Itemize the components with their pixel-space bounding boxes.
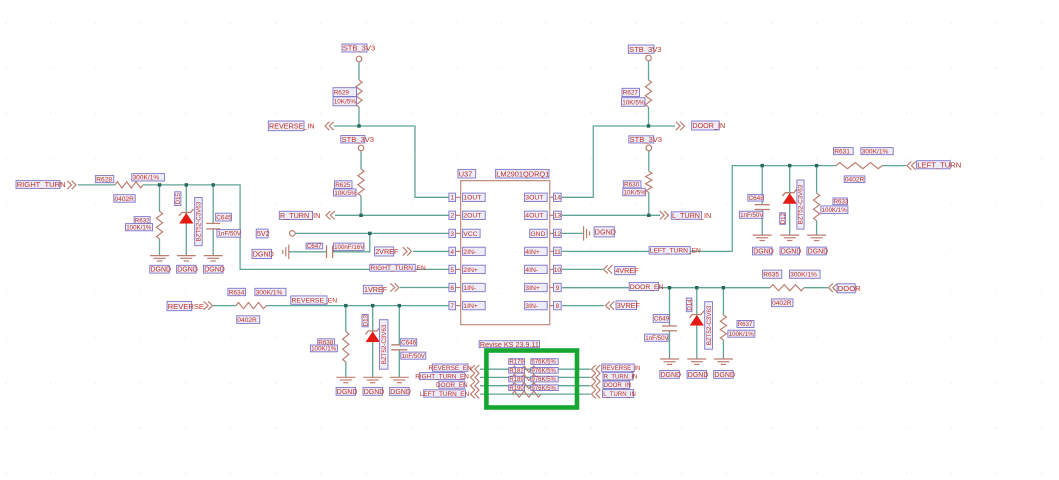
svg-text:C647: C647	[307, 243, 322, 250]
wire R633 to ground	[816, 221, 818, 235]
resistor R638	[343, 332, 349, 363]
svg-text:4VREF: 4VREF	[615, 266, 639, 275]
pin number 1	[449, 193, 456, 202]
svg-text:D14: D14	[686, 299, 693, 311]
value 10K/5%	[333, 97, 357, 106]
resistor R629	[356, 80, 362, 107]
net DGND	[390, 387, 411, 396]
svg-text:10K/5%: 10K/5%	[334, 99, 357, 106]
wire LEFT_TURN_EN to L_TURN_IN row	[480, 393, 591, 395]
svg-text:REVERSE_EN: REVERSE_EN	[292, 298, 338, 305]
pin 5 stub	[456, 268, 461, 270]
svg-text:R_TURN_IN: R_TURN_IN	[280, 211, 320, 220]
wire REVERSE port to R634	[213, 305, 236, 307]
svg-text:4OUT: 4OUT	[525, 213, 543, 220]
svg-text:LM2901QDRQ1: LM2901QDRQ1	[496, 169, 549, 178]
svg-text:1nF/50V: 1nF/50V	[740, 212, 764, 219]
svg-text:100nF/16V: 100nF/16V	[334, 244, 365, 251]
wire STB_3V3 to R625	[360, 151, 362, 169]
power STB_3V3	[358, 145, 364, 151]
port arrow REVERSE_IN	[325, 122, 334, 130]
svg-text:4IN+: 4IN+	[525, 249, 540, 256]
svg-text:R_TURN_IN: R_TURN_IN	[604, 374, 638, 380]
wire R631 to LEFT_TURN port	[882, 165, 906, 167]
value 100K/1%	[728, 330, 755, 338]
port REVERSE	[167, 301, 204, 310]
wire node to C648	[761, 166, 763, 205]
capacitor C648	[755, 205, 770, 210]
svg-text:3IN+: 3IN+	[525, 285, 540, 292]
port DOOR	[837, 284, 861, 293]
svg-text:R637: R637	[738, 321, 753, 328]
svg-text:300K/1%: 300K/1%	[862, 149, 889, 156]
net DGND	[177, 265, 198, 273]
port REVERSE_EN	[429, 364, 472, 372]
svg-text:100K/1%: 100K/1%	[822, 207, 848, 214]
wire node to C645	[212, 185, 214, 224]
resistor R189	[512, 383, 541, 389]
port arrow 1VREF	[390, 283, 399, 291]
svg-text:DGND: DGND	[253, 250, 274, 259]
svg-text:R627: R627	[623, 90, 639, 97]
pin number 4	[449, 247, 456, 256]
junction C648 node	[761, 164, 764, 167]
svg-text:C649: C649	[654, 316, 670, 323]
value 300K/1%	[789, 270, 820, 279]
wire pin13 to L_TURN_IN port	[562, 214, 660, 216]
svg-text:R634: R634	[229, 289, 245, 296]
wire pin8 to 3VREF	[562, 305, 604, 307]
capacitor C646	[391, 345, 407, 350]
ground DGND	[714, 359, 733, 364]
wire node to R632	[159, 185, 161, 211]
port DOOR_EN	[436, 381, 468, 389]
svg-text:D13: D13	[362, 314, 369, 326]
wire R638 to ground	[345, 362, 347, 377]
pin name 2IN+	[463, 265, 486, 274]
svg-text:976K/5%: 976K/5%	[532, 386, 557, 392]
value 100K/1%	[126, 224, 153, 232]
ground DGND	[390, 377, 409, 382]
port arrow 3VREF	[606, 301, 615, 309]
wire C647 to ground	[289, 251, 327, 253]
svg-text:DOOR_IN: DOOR_IN	[604, 383, 631, 389]
svg-text:GND: GND	[530, 231, 545, 238]
port R_TURN_IN	[279, 211, 320, 220]
wire C646 to ground	[398, 350, 400, 378]
svg-text:DGND: DGND	[714, 372, 735, 379]
svg-text:DOOR: DOOR	[838, 284, 861, 293]
port arrow RIGHT_TURN	[67, 181, 76, 189]
value BZT52-C3V63	[705, 302, 713, 350]
port arrow LEFT_TURN	[907, 161, 916, 169]
svg-text:DGND: DGND	[781, 249, 802, 256]
value 100nF/16V	[333, 243, 365, 251]
ground DGND	[687, 359, 706, 364]
port arrow LEFT_TURN_EN	[471, 390, 480, 398]
wire pin10 to 4VREF	[562, 268, 603, 270]
revision highlight box	[486, 351, 577, 408]
svg-text:LEFT_TURN_EN: LEFT_TURN_EN	[420, 391, 470, 398]
svg-text:0402R: 0402R	[772, 300, 792, 307]
resistor R633	[814, 193, 820, 221]
value 0402R	[771, 299, 793, 307]
value 300K/1%	[132, 174, 165, 182]
ground DGND	[660, 359, 679, 364]
power STB_3V3	[646, 145, 652, 151]
svg-text:DGND: DGND	[661, 372, 682, 379]
pin 7 stub	[456, 305, 461, 307]
port arrow DOOR	[829, 284, 838, 292]
wire DOOR_EN to DOOR_IN row	[480, 385, 591, 387]
pin number 6	[449, 283, 456, 292]
net DGND	[204, 265, 225, 273]
junction C645 node	[212, 183, 215, 186]
port 3VREF	[616, 301, 640, 310]
value 576K/5%	[531, 359, 558, 366]
svg-text:R182: R182	[509, 369, 524, 375]
svg-text:D12: D12	[780, 212, 787, 224]
pin number 10	[554, 265, 562, 274]
refdes R182	[509, 368, 525, 375]
net REVERSE_EN	[291, 296, 337, 305]
pin 11 stub	[550, 250, 554, 252]
wire R_TURN_IN node to pin2	[335, 214, 449, 216]
pin 3 stub	[456, 232, 461, 234]
svg-text:0402R: 0402R	[237, 317, 257, 324]
svg-text:0402R: 0402R	[845, 177, 865, 184]
resistor R637	[720, 315, 726, 340]
refdes R179	[509, 359, 525, 366]
wire R627 to DOOR_IN node	[648, 107, 650, 126]
refdes C647	[306, 243, 323, 250]
capacitor C647	[327, 245, 333, 258]
svg-text:1nF/50V: 1nF/50V	[645, 335, 669, 342]
junction R637 node	[722, 286, 725, 289]
port L_TURN_IN	[671, 211, 711, 220]
pin number 14	[554, 193, 562, 202]
resistor R627	[645, 80, 651, 107]
pin name 1IN+	[463, 301, 486, 310]
svg-text:C648: C648	[749, 195, 765, 202]
svg-text:7: 7	[450, 303, 454, 310]
value BZT52-C3V63	[379, 320, 388, 370]
svg-text:BZT52-C3V63: BZT52-C3V63	[196, 201, 203, 241]
ground DGND	[780, 235, 799, 240]
net 5V2	[256, 229, 269, 238]
svg-text:1VREF: 1VREF	[364, 285, 388, 294]
svg-text:RIGHT_TURN_EN: RIGHT_TURN_EN	[415, 373, 469, 380]
wire pin9 DOOR_EN to R635	[562, 287, 770, 289]
port arrow 4VREF	[604, 265, 613, 273]
wire REVERSE_EN to REVERSE_IN row	[480, 368, 591, 370]
port arrow 2VREF	[403, 247, 412, 255]
pin 2 stub	[456, 214, 461, 216]
svg-text:DGND: DGND	[753, 249, 774, 256]
pin name 2OUT	[463, 211, 486, 220]
svg-text:DGND: DGND	[337, 389, 358, 396]
power net STB_3V3	[341, 135, 374, 144]
wire R635 to DOOR port	[804, 287, 828, 289]
junction R_TURN_IN node	[359, 214, 362, 217]
svg-text:REVERSE_IN: REVERSE_IN	[269, 121, 315, 130]
svg-text:976K/5%: 976K/5%	[532, 377, 557, 383]
svg-text:DOOR_EN: DOOR_EN	[436, 382, 468, 389]
port arrow R_TURN_IN	[592, 373, 601, 381]
refdes D14	[686, 298, 693, 312]
pin name 4IN-	[525, 265, 548, 274]
refdes R638	[318, 339, 335, 347]
note Revise KS 23.9.11	[479, 340, 539, 349]
svg-text:BZT52-C3V63: BZT52-C3V63	[706, 305, 713, 345]
svg-text:REVERSE: REVERSE	[168, 302, 204, 311]
svg-text:DGND: DGND	[688, 372, 709, 379]
refdes C645	[216, 213, 232, 221]
port arrow REVERSE_EN	[471, 365, 480, 373]
port arrow DOOR_EN	[471, 382, 480, 390]
capacitor C645	[206, 223, 220, 229]
port 4VREF	[615, 266, 639, 275]
junction D14 node	[695, 286, 698, 289]
svg-text:STB_3V3: STB_3V3	[629, 45, 662, 54]
pin name 2IN-	[463, 247, 486, 256]
resistor R190	[512, 391, 541, 397]
refdes R637	[737, 321, 754, 329]
svg-text:REVERSE_EN: REVERSE_EN	[429, 365, 472, 372]
wire RIGHT_TURN_EN to R_TURN_IN row	[480, 376, 591, 378]
wire node through D15 to ground	[185, 185, 187, 256]
port 1VREF	[363, 285, 387, 294]
wire node to R637	[722, 288, 724, 315]
svg-text:1nF/50V: 1nF/50V	[218, 231, 242, 238]
svg-text:LEFT_TURN_EN: LEFT_TURN_EN	[650, 248, 701, 255]
wire 2VREF to pin4	[413, 250, 449, 252]
net DGND	[336, 387, 357, 396]
wire pin12 to DGND	[562, 232, 584, 234]
port arrow L_TURN_IN	[592, 390, 601, 398]
port arrow RIGHT_TURN_EN	[471, 373, 480, 381]
refdes R629	[333, 88, 357, 97]
svg-text:DGND: DGND	[204, 267, 225, 274]
svg-text:12: 12	[554, 231, 562, 238]
junction D13 node	[371, 304, 374, 307]
wire STB_3V3 to R630	[648, 151, 650, 171]
value 300K/1%	[861, 148, 893, 156]
value 10K/5%	[334, 189, 357, 197]
pin name 4OUT	[525, 211, 548, 220]
wire C648 to ground	[761, 210, 763, 236]
op-amp U37 LM2901QDRQ1 body	[461, 181, 550, 325]
power STB_3V3	[356, 56, 362, 62]
svg-text:LEFT_TURN: LEFT_TURN	[917, 161, 961, 170]
pin name 1OUT	[463, 193, 486, 202]
ground DGND	[584, 226, 590, 240]
pin number 13	[554, 211, 562, 220]
svg-text:300K/1%: 300K/1%	[790, 272, 817, 279]
svg-text:2VREF: 2VREF	[375, 247, 399, 256]
wire C649 to ground	[669, 331, 671, 359]
pin number 9	[554, 283, 562, 292]
net DGND	[150, 265, 171, 273]
svg-text:3OUT: 3OUT	[525, 195, 543, 202]
svg-text:DOOR_IN: DOOR_IN	[692, 121, 725, 130]
pin 4 stub	[456, 250, 461, 252]
wire 5V2 to pin3 VCC	[295, 232, 449, 234]
pin number 12	[554, 229, 562, 238]
port LEFT_TURN	[917, 161, 962, 170]
pin number 11	[554, 247, 562, 256]
svg-text:10K/5%: 10K/5%	[334, 190, 357, 197]
port arrow DOOR_IN	[592, 382, 601, 390]
net DOOR_EN	[629, 282, 663, 291]
junction D12 node	[788, 164, 791, 167]
pin name 1IN-	[463, 283, 486, 292]
junction C649 node	[668, 286, 671, 289]
refdes R633	[833, 198, 849, 206]
value 976K/5%	[531, 368, 558, 375]
wire STB_3V3 to R629	[358, 62, 360, 80]
ground DGND	[150, 256, 169, 261]
ground DGND	[283, 245, 289, 259]
junction REVERSE_IN node	[357, 124, 360, 127]
refdes R631	[834, 148, 854, 156]
wire R625 to R_TURN_IN node	[360, 196, 362, 215]
svg-text:976K/5%: 976K/5%	[532, 369, 557, 375]
capacitor C649	[662, 326, 677, 331]
diode D15	[179, 209, 194, 223]
port 2VREF	[375, 247, 399, 256]
refdes R628	[96, 175, 114, 183]
svg-text:L_TURN_IN: L_TURN_IN	[672, 211, 711, 220]
svg-text:2IN-: 2IN-	[463, 249, 476, 256]
net DGND	[687, 371, 708, 379]
wire RIGHT_TURN port to R628	[78, 184, 115, 186]
svg-text:100K/1%: 100K/1%	[311, 346, 337, 353]
svg-text:4: 4	[450, 249, 454, 256]
refdes C649	[653, 315, 669, 323]
resistor R628	[115, 182, 143, 188]
svg-text:C645: C645	[216, 214, 232, 221]
svg-text:R631: R631	[834, 149, 850, 156]
svg-text:Revise KS 23.9.11: Revise KS 23.9.11	[480, 340, 539, 349]
junction D15 node	[185, 183, 188, 186]
port R_TURN_IN	[603, 372, 637, 380]
ground DGND	[336, 377, 355, 382]
wire R637 to ground	[722, 340, 724, 359]
svg-text:L_TURN_IN: L_TURN_IN	[603, 392, 636, 398]
power STB_3V3	[646, 55, 652, 61]
port arrow REVERSE_IN	[592, 365, 601, 373]
wire REVERSE_IN node to pin1	[334, 126, 449, 197]
part number LM2901QDRQ1	[496, 169, 550, 178]
svg-text:RIGHT_TURN: RIGHT_TURN	[17, 180, 66, 189]
net DGND	[780, 247, 801, 255]
pin 9 stub	[550, 287, 554, 289]
svg-text:10K/5%: 10K/5%	[624, 189, 647, 196]
diode D12	[782, 189, 797, 203]
svg-text:300K/1%: 300K/1%	[256, 289, 283, 296]
refdes R189	[509, 376, 525, 383]
svg-text:R179: R179	[509, 360, 524, 366]
svg-text:13: 13	[554, 213, 562, 220]
net DGND	[807, 247, 828, 255]
junction C646 node	[398, 304, 401, 307]
wire VCC branch to C647	[333, 233, 370, 251]
svg-text:9: 9	[556, 285, 560, 292]
svg-text:3IN-: 3IN-	[525, 303, 538, 310]
power 5V2	[290, 231, 296, 237]
svg-text:R189: R189	[509, 377, 524, 383]
power net STB_3V3	[629, 135, 662, 144]
svg-text:R630: R630	[624, 182, 640, 189]
diode D14	[689, 311, 704, 325]
svg-text:1IN-: 1IN-	[463, 285, 476, 292]
wire R629 to REVERSE_IN node	[358, 107, 360, 126]
refdes D13	[362, 314, 369, 326]
value 100K/1%	[821, 206, 848, 214]
ground DGND	[363, 377, 382, 382]
pin name GND	[530, 229, 548, 238]
pin number 8	[554, 301, 562, 310]
value 10K/5%	[623, 188, 646, 196]
diode D13	[365, 327, 380, 341]
svg-text:5V2: 5V2	[257, 229, 270, 238]
wire node through D12 to ground	[789, 166, 791, 236]
wire 1VREF to pin6	[400, 287, 449, 289]
pin name 3OUT	[525, 193, 548, 202]
svg-text:2IN+: 2IN+	[463, 267, 478, 274]
wire pin11 LEFT_TURN_EN to divider node	[562, 166, 836, 252]
svg-text:U37: U37	[459, 169, 473, 178]
refdes D15	[175, 192, 182, 206]
pin 1 stub	[456, 196, 461, 198]
power net STB_3V3	[628, 45, 661, 54]
wire node to C649	[669, 288, 671, 326]
value BZT52-C3V63	[195, 198, 203, 246]
pin 8 stub	[550, 305, 554, 307]
wire node through D13 to ground	[372, 306, 374, 378]
svg-text:R635: R635	[763, 272, 779, 279]
value 1nF/50V	[217, 230, 242, 238]
svg-text:DGND: DGND	[151, 267, 172, 274]
wire node through D14 to ground	[696, 288, 698, 359]
value 976K/5%	[531, 385, 558, 392]
svg-text:R629: R629	[334, 89, 350, 96]
wire node to C646	[398, 306, 400, 345]
net LEFT_TURN_EN	[649, 247, 701, 255]
junction VCC decoupling node	[368, 232, 371, 235]
svg-text:4IN-: 4IN-	[525, 267, 538, 274]
svg-text:DGND: DGND	[177, 267, 198, 274]
pin 13 stub	[550, 214, 554, 216]
svg-text:D15: D15	[175, 192, 182, 204]
ground DGND	[807, 235, 826, 240]
junction R633 node	[815, 164, 818, 167]
port RIGHT_TURN	[16, 180, 66, 189]
junction R632 node	[158, 183, 161, 186]
svg-text:VCC: VCC	[463, 231, 477, 238]
net DGND	[714, 371, 735, 379]
value 0402R	[237, 316, 260, 324]
value 0402R	[844, 176, 865, 184]
pin name VCC	[463, 229, 481, 238]
svg-text:2: 2	[450, 213, 454, 220]
svg-text:300K/1%: 300K/1%	[133, 175, 160, 182]
svg-text:3VREF: 3VREF	[617, 301, 641, 310]
value 0402R	[114, 195, 135, 203]
resistor R179	[512, 366, 541, 372]
wire DOOR_IN node to pin14	[562, 126, 675, 197]
